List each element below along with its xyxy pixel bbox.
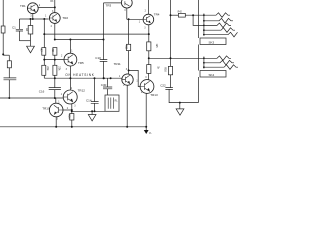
resistor left chain	[7, 61, 11, 68]
connector SK3 box	[200, 38, 226, 45]
wire TR13 emitter down to V-	[145, 93, 147, 130]
svg-text:V-: V-	[149, 131, 152, 135]
svg-text:C10: C10	[95, 56, 101, 60]
wire feed y15.2	[171, 14, 179, 16]
wire ground link y40.7	[19, 40, 30, 42]
wire C30 stub upper	[107, 78, 109, 87]
node C30 column heatsink bus	[103, 77, 105, 79]
wire TR11 emitter down	[126, 85, 128, 127]
wire SK3 lead2 with break	[204, 18, 233, 23]
ground symbol mid	[88, 115, 96, 121]
TR13 internals	[140, 81, 150, 91]
wire left rail vertical	[2, 0, 4, 55]
wire SK3 lead4 with break	[204, 28, 235, 33]
resistor on left rail	[1, 26, 5, 33]
wire V3 column	[103, 3, 105, 60]
wire TR5 collector riser	[69, 40, 71, 54]
wire ground3 stub	[179, 103, 181, 109]
capacitor left chain	[4, 78, 17, 80]
wire SK4 pin bar	[203, 57, 205, 69]
resistor R7 col44 upper	[42, 48, 46, 56]
wire SK4 lead1 with break	[204, 56, 231, 61]
node TR11 collector tee	[128, 69, 130, 71]
node col71 bottom bus	[71, 126, 73, 128]
capacitor C22	[165, 88, 173, 90]
node TR10 base junction	[71, 109, 73, 111]
node SK4 pin2	[203, 62, 205, 64]
node V4 output bus	[148, 57, 150, 59]
svg-text:TR1: TR1	[20, 4, 26, 8]
wire ground stub	[30, 41, 32, 47]
node TR1 collector at V2	[54, 6, 56, 8]
wire SK4 lead2 with break	[204, 60, 234, 65]
wire TR11 tee to TR13 base	[129, 70, 141, 86]
resistor R42	[178, 13, 185, 17]
svg-text:TR3: TR3	[106, 3, 112, 7]
TR5 emitter arrowhead	[71, 61, 73, 64]
svg-text:R42: R42	[178, 11, 183, 13]
TR11 internals	[122, 75, 130, 84]
TR3 internals	[125, 1, 129, 6]
wire col128 lower	[128, 51, 130, 71]
node TR11 emitter bottom bus	[126, 126, 128, 128]
wire connector rail low	[197, 77, 199, 103]
wire SK3 lead5 with break	[204, 32, 238, 37]
transistor TR2	[49, 13, 60, 24]
resistor on V4 upper	[147, 42, 151, 51]
capacitor C16	[49, 88, 61, 90]
node bus1 left end	[43, 33, 45, 35]
node C14 bottom emitter rail	[94, 110, 96, 112]
resistor on V4 lower	[147, 65, 151, 74]
wire TR2 emitter to bus2	[54, 23, 56, 39]
wire C22 down and right	[169, 89, 198, 102]
node V6 feed wire	[170, 14, 172, 16]
wire TR3 base horizontal	[104, 2, 122, 4]
svg-text:R11: R11	[124, 45, 127, 50]
TR2 internals	[49, 14, 57, 22]
wire V4 to TR13	[147, 73, 149, 80]
wire C14 column upper	[94, 78, 96, 101]
resistor R8 col55 upper	[53, 48, 57, 56]
resistor R16	[168, 66, 172, 74]
transistor TR1	[27, 3, 38, 14]
svg-text:TR5: TR5	[78, 61, 84, 65]
node V3 heatsink bus	[103, 77, 105, 79]
wire output bus y58.3	[149, 57, 204, 59]
ground symbol right	[176, 109, 184, 115]
node riser on base wire	[43, 18, 45, 20]
TR1 emitter arrowhead	[33, 9, 35, 12]
wire TR4 collector top	[147, 0, 149, 14]
TR10 internals	[54, 105, 63, 114]
wire TR3 emitter to TR4 base	[127, 18, 143, 20]
wire col44 to heatsink bus	[43, 75, 45, 78]
resistor R10 col55 lower	[53, 65, 57, 75]
wire SK4 lead3 with break	[204, 65, 238, 70]
TR4 internals	[143, 16, 151, 24]
wire emitter rail y111.3	[72, 110, 105, 112]
node bus1 right end	[148, 33, 150, 35]
TR1 internals	[27, 5, 35, 12]
svg-text:TR11: TR11	[114, 62, 121, 66]
svg-text:TR2: TR2	[62, 16, 68, 20]
node SK3 pin2	[203, 20, 205, 22]
node V6 output bus	[170, 57, 172, 59]
node col128 on emitter wire	[128, 18, 130, 20]
node base link col55	[54, 59, 56, 61]
node ground3 tee	[179, 102, 181, 104]
capacitor C1	[16, 29, 23, 31]
relay RLA box	[105, 95, 119, 111]
node TR5 emitter bus	[69, 77, 71, 79]
node bottom bus right end	[145, 126, 147, 128]
node SK3 pin5	[203, 34, 205, 36]
wire heatsink bus y78.2	[44, 77, 122, 79]
svg-text:C1: C1	[12, 26, 16, 30]
node SK3 pin3	[203, 25, 205, 27]
node TR1 emitter on base wire	[32, 18, 34, 20]
node bus2 TR5 riser	[69, 39, 71, 41]
capacitor C30	[103, 87, 112, 89]
wire TR10 base to emitter column	[63, 109, 72, 111]
wire col128 upper	[128, 19, 130, 44]
node C14 top heatsink bus	[94, 77, 96, 79]
node base link col44	[43, 59, 45, 61]
svg-text:TR13: TR13	[150, 93, 158, 97]
wire TR12 collector to heatsink bus	[69, 78, 71, 90]
node col55 heatsink bus	[54, 77, 56, 79]
node R4 top on base wire	[30, 18, 32, 20]
transistor TR12	[63, 90, 77, 104]
wire TR12 emitter stub	[71, 104, 73, 114]
svg-text:R16: R16	[163, 67, 166, 72]
svg-text:SK3: SK3	[209, 40, 215, 44]
wire C1 top stub	[18, 19, 20, 29]
wire bus2 y39.5	[55, 39, 104, 41]
node SK3 pin4	[203, 29, 205, 31]
wire C14 column lower	[94, 103, 96, 111]
svg-text:TR12: TR12	[78, 89, 86, 93]
wire C30 stub lower	[107, 89, 109, 95]
wire jumper left rail to left chain	[3, 54, 9, 56]
wire input node horizontal y19	[19, 18, 48, 20]
wire R42 to connector	[185, 14, 204, 16]
svg-text:SK4: SK4	[209, 73, 215, 77]
TR12 emitter arrowhead	[70, 99, 73, 103]
node SK4 pin1	[203, 57, 205, 59]
wire left chain vertical middle	[8, 68, 10, 78]
supply arrow V-	[144, 130, 149, 134]
ground symbol input	[27, 46, 35, 53]
TR10 emitter arrowhead	[54, 112, 56, 115]
wire V6 below R16	[170, 75, 172, 88]
wire V3 below C10	[103, 61, 105, 78]
wire R4 column lower	[30, 34, 32, 41]
TR5 internals	[64, 55, 73, 64]
node TR12 emitter wire111	[71, 110, 73, 112]
wire TR10 top stub	[55, 98, 57, 103]
wire V4 between resistors	[148, 51, 150, 65]
resistor R9 col44 lower	[42, 65, 46, 75]
node SK3 pin1	[203, 14, 205, 16]
svg-text:C16: C16	[39, 90, 45, 94]
wire V6 column top	[170, 0, 172, 66]
connector SK4 box	[200, 71, 226, 78]
TR4 emitter arrowhead	[149, 21, 151, 24]
node hook junction	[192, 14, 194, 16]
svg-text:C14: C14	[86, 98, 92, 102]
transistor TR11	[122, 74, 133, 85]
wire rail y98	[0, 97, 63, 99]
capacitor C14	[91, 102, 99, 104]
wire TR4 emitter to bus1	[148, 25, 150, 42]
wire TR1 collector to V2	[38, 6, 55, 8]
wire SK3 lead3 with break	[204, 23, 231, 28]
node bus2 left end	[54, 39, 56, 41]
wire TR10 bottom stub	[55, 117, 57, 127]
node on left rail	[2, 53, 4, 55]
svg-text:C22: C22	[160, 84, 166, 88]
node left chain at mid rail	[8, 97, 10, 99]
svg-text:TR4: TR4	[154, 12, 160, 16]
wire V2 column top	[54, 0, 56, 13]
wire C1 bottom stub	[18, 31, 20, 41]
svg-text:1k5: 1k5	[155, 44, 158, 49]
transistor TR10	[49, 103, 63, 117]
TR2 emitter arrowhead	[55, 19, 57, 22]
resistor R4	[28, 26, 33, 35]
wire bus1 y34	[44, 33, 149, 35]
svg-text:R50: R50	[68, 114, 71, 119]
wire col71 resistor to bottom bus	[71, 120, 73, 127]
node SK4 pin3	[203, 66, 205, 68]
wire connector rail top	[197, 0, 199, 38]
wire connector rail mid	[197, 45, 199, 71]
transistor TR5	[64, 53, 77, 66]
wire col55 between resistors	[54, 55, 56, 65]
TR11 emitter arrowhead	[128, 81, 130, 84]
capacitor C10	[100, 60, 108, 62]
resistor col71 lower	[70, 114, 74, 121]
wire ground2 stub	[91, 111, 93, 114]
transistor TR3 clipped top	[121, 0, 132, 8]
wire left chain vertical upper	[8, 55, 10, 61]
TR12 internals	[63, 92, 73, 102]
node TR10 bottom bus	[55, 126, 57, 128]
wire riser x44 base wire to bus1	[43, 19, 45, 48]
wire TR11 collector stub	[128, 70, 130, 74]
wire R4 column upper	[30, 19, 32, 26]
svg-text:TR10: TR10	[42, 106, 50, 110]
wire C16 to rail98	[54, 90, 56, 98]
node bus2 at V3	[103, 39, 105, 41]
node ground2 on emitter rail	[91, 110, 93, 112]
svg-text:ON HEATSINK: ON HEATSINK	[65, 73, 94, 77]
wire TR1 emitter stub	[32, 14, 34, 19]
transistor TR4	[143, 14, 154, 25]
relay internal bars	[108, 98, 113, 109]
wire hook down	[193, 15, 204, 25]
wire col44 between resistors	[43, 55, 45, 65]
wire left chain vertical lower	[8, 80, 10, 98]
wire col55 resistor to bus	[54, 75, 56, 87]
transistor TR13	[140, 80, 154, 94]
TR13 emitter arrowhead	[147, 88, 150, 91]
wire SK3 pin bar	[203, 14, 205, 36]
resistor col128	[127, 44, 131, 50]
wire TR5 base link y59.6	[44, 59, 64, 61]
wire bottom bus y126.8	[0, 126, 146, 128]
node relay column heatsink bus	[110, 77, 112, 79]
wire TR5 emitter to heatsink bus	[69, 66, 71, 78]
wire TR3 emitter stub	[126, 8, 128, 19]
svg-text:C30: C30	[101, 83, 107, 87]
node C16 rail98	[54, 97, 56, 99]
wire SK3 lead1 with break	[204, 13, 230, 18]
